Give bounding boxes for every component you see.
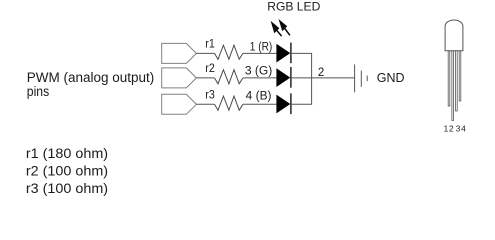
- wire P1 to r1: [196, 52, 214, 54]
- connector pin P1 (PWM output): [162, 43, 197, 63]
- svg-text:3: 3: [456, 124, 461, 134]
- LED package lead 4: [459, 51, 461, 101]
- svg-text:r2 (100 ohm): r2 (100 ohm): [26, 164, 108, 179]
- light ray arrow 1: [271, 21, 282, 37]
- svg-text:r1: r1: [205, 37, 215, 51]
- LED D3 blue anode triangle: [276, 95, 290, 114]
- svg-text:1: 1: [444, 124, 449, 134]
- resistor r2: [215, 70, 243, 84]
- svg-text:r3 (100 ohm): r3 (100 ohm): [26, 181, 108, 196]
- svg-text:r3: r3: [205, 88, 215, 102]
- connector pin P2 (PWM output): [162, 68, 197, 88]
- wire P3 to r3: [196, 103, 214, 105]
- wire node 2 to ground: [312, 77, 355, 79]
- wire P2 to r2: [196, 77, 214, 79]
- connector pin P3 (PWM output): [162, 94, 197, 114]
- LED D1 red anode triangle: [276, 44, 290, 63]
- svg-text:4: 4: [461, 124, 466, 134]
- svg-text:RGB LED: RGB LED: [267, 0, 320, 13]
- svg-text:4 (B): 4 (B): [246, 90, 272, 102]
- LED package lead 2: [452, 51, 454, 121]
- svg-text:2: 2: [318, 67, 324, 79]
- svg-text:PWM (analog output): PWM (analog output): [27, 70, 154, 85]
- svg-text:r2: r2: [205, 61, 215, 75]
- wire r2 to D2: [243, 77, 277, 79]
- svg-text:r1 (180 ohm): r1 (180 ohm): [26, 146, 108, 161]
- LED D2 green anode triangle: [276, 68, 290, 87]
- light ray arrow 2: [279, 19, 290, 35]
- ground: [355, 65, 368, 93]
- resistor r1: [215, 45, 243, 59]
- LED D1 cathode bar: [290, 43, 292, 64]
- node 2 bus wire (common cathode): [311, 53, 313, 104]
- wire r3 to D3: [243, 103, 277, 105]
- svg-text:GND: GND: [377, 70, 405, 85]
- svg-text:1 (R): 1 (R): [250, 41, 273, 53]
- svg-text:2: 2: [449, 124, 454, 134]
- svg-text:pins: pins: [27, 84, 50, 99]
- LED package lead 1: [448, 51, 450, 106]
- resistor r3: [215, 96, 243, 110]
- RGB LED package body: [445, 20, 463, 51]
- LED D2 cathode bar: [290, 67, 292, 88]
- wire D3 to node 2 bus: [291, 103, 312, 105]
- wire D2 to node 2 bus: [291, 77, 312, 79]
- LED D3 cathode bar: [290, 93, 292, 114]
- wire r1 to D1: [243, 52, 277, 54]
- wire D1 to node 2 bus: [291, 52, 312, 54]
- LED package lead 3: [456, 51, 458, 111]
- svg-text:3 (G): 3 (G): [245, 66, 273, 78]
